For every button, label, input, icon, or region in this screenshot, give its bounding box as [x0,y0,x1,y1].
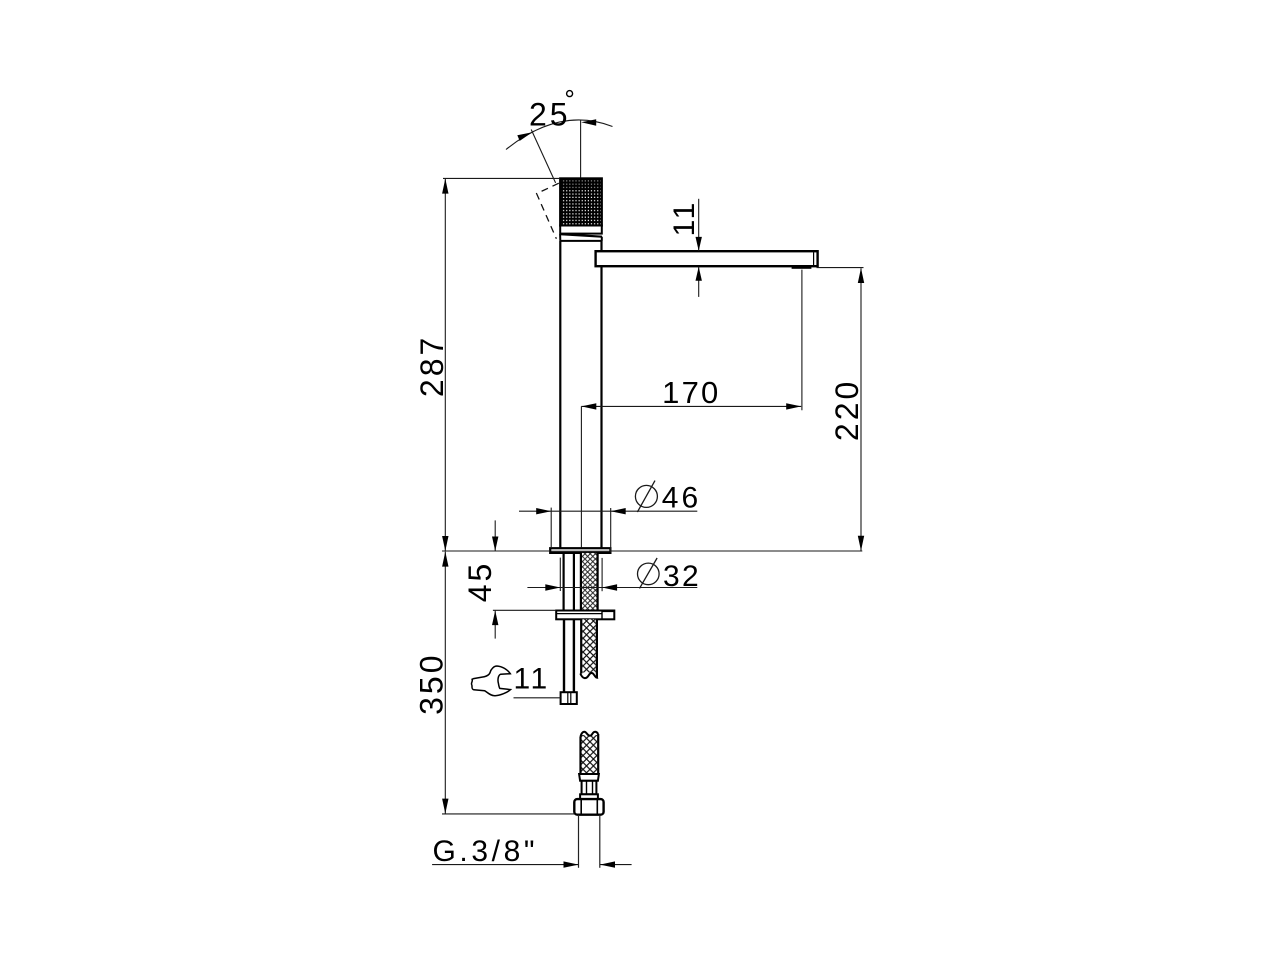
ext mounting line right [610,550,863,552]
arrow 350 top [442,552,448,567]
arrow 45 bottom (pointing up) [492,611,498,626]
upper hose below washer with break [580,619,598,678]
arrow 45 top (pointing down) [492,537,498,552]
shank: stud + hose between flange and washer [564,553,598,611]
arrow 25 left (NE along arc) [517,132,532,141]
arrow 25 right (W at vertical line) [581,119,596,125]
dim 170 line [581,405,801,407]
dim 220 line [860,268,862,550]
diameter symbol 32 [638,563,660,585]
ext lines d46 [550,508,552,548]
degree symbol [567,91,573,97]
threaded stud below washer [561,619,577,704]
arrow 11 bottom (up) [696,267,702,281]
svg-text:350: 350 [414,653,450,715]
pipe end G3/8 [578,815,580,868]
ext lines d32 [559,558,561,591]
arrow d46 left (right-pointing) [536,508,551,514]
arrowheads [442,119,864,868]
ext line 25 slant [531,130,555,183]
arrow G38 left (right-pointing) [564,861,579,867]
aerator [792,266,812,268]
ext line spout right (220) [817,267,864,269]
svg-text:220: 220 [829,379,865,441]
ext line washer top (45) [493,609,556,611]
svg-text:45: 45 [462,561,498,603]
ext line bottom (350/G) [442,813,574,815]
dim d32 line [527,587,697,589]
arrow 287 bottom [442,536,448,551]
svg-text:11: 11 [668,200,701,236]
dashed tilted knob outline [537,183,559,239]
arrow 170 left [581,403,596,409]
neck collar [580,794,598,799]
diameter symbol 46 [635,481,659,589]
lower hose piece [574,732,603,868]
svg-text:46: 46 [662,482,701,515]
svg-text:25: 25 [529,97,571,133]
arrow 350 bottom [442,799,448,814]
knurled knob [560,178,602,241]
leader wrench 11 [514,697,561,699]
spout [596,251,818,269]
ext line 25 vertical [580,120,582,178]
corrugated section [582,781,597,795]
svg-text:G.3/8": G.3/8" [433,835,539,868]
svg-text:170: 170 [662,375,720,410]
arrow d32 right (left-pointing) [602,584,617,590]
arrow G38 right (left-pointing) [600,861,615,867]
dim d46 line [519,510,697,512]
arrow 170 right [786,403,801,409]
ext line aerator (170/220) [801,270,803,411]
dim 45 lines [494,520,496,551]
dim 287 line [444,179,446,551]
dim 25deg arc [506,120,613,150]
svg-text:32: 32 [663,560,701,593]
base flange [550,548,610,553]
hose nut [574,799,603,815]
arrow 220 bottom [858,536,864,551]
crimp collar [579,774,599,781]
ext line axis (170) [580,406,582,547]
arrow 287 top [442,179,448,194]
dimension texts [414,91,866,868]
svg-text:287: 287 [414,335,450,397]
wrench icon [471,666,510,696]
dim 11 spout lines [698,199,700,251]
dim 350 line [444,552,446,814]
svg-text:11: 11 [514,663,550,696]
stud end nut [561,692,577,704]
arrow d32 left (right-pointing) [545,584,560,590]
dim G38 lines [432,864,578,866]
arrow 220 top [858,268,864,283]
ext mounting line left [442,550,550,552]
arrow d46 right (left-pointing) [611,508,626,514]
ext line top (287) [443,177,560,179]
mounting washer / nut [556,611,614,620]
faucet body [560,241,601,548]
arrow 11 top (down) [696,237,702,251]
